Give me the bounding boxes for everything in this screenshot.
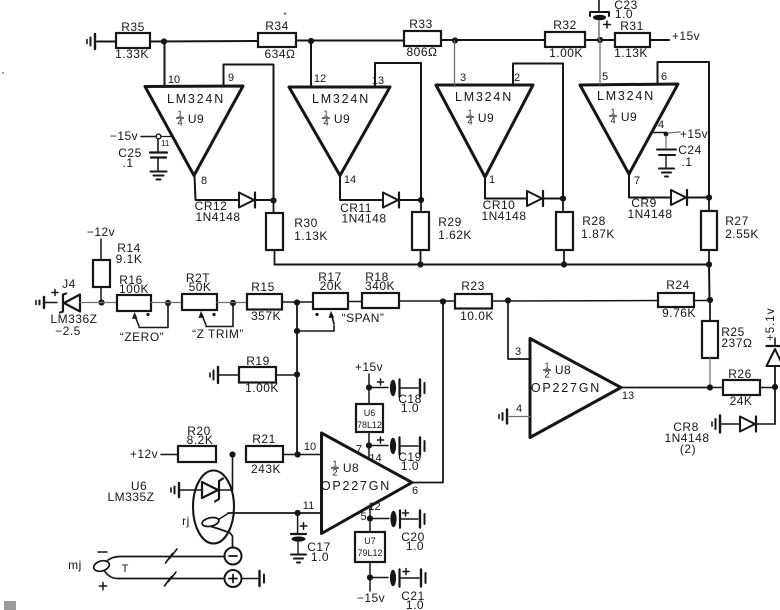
op-amp U9A LM324N: [145, 72, 243, 187]
wire R16 to R2T: [151, 302, 182, 304]
svg-text:79L12: 79L12: [357, 548, 382, 558]
diode CR12: [195, 193, 255, 225]
svg-text:R33: R33: [409, 17, 433, 31]
node output R26: [707, 384, 713, 390]
op-amp U8B OP227GN: [516, 339, 634, 438]
resistor R19: [239, 354, 297, 395]
svg-text:10: 10: [168, 74, 180, 86]
svg-text:1.0: 1.0: [401, 459, 419, 473]
wire R15 to node: [282, 301, 297, 303]
wire R26 node down: [774, 388, 776, 425]
node R17 wiper vertical: [294, 328, 300, 334]
svg-text:24K: 24K: [730, 394, 753, 408]
svg-text:7: 7: [634, 175, 640, 187]
svg-text:U7: U7: [364, 536, 376, 546]
svg-text:4: 4: [177, 118, 182, 129]
wire R2T to R15: [217, 302, 247, 304]
svg-text:100K: 100K: [119, 282, 149, 296]
svg-text:237Ω: 237Ω: [721, 336, 752, 350]
wire pin5 U9D: [599, 40, 601, 84]
node R26 right: [772, 384, 778, 390]
svg-text:U9: U9: [621, 110, 637, 124]
node R27 lower bus: [706, 261, 712, 267]
op-amp U9B LM324N: [289, 73, 390, 186]
wire R24 to node: [694, 300, 710, 302]
svg-text:T: T: [122, 563, 129, 575]
svg-text:13: 13: [622, 390, 634, 402]
node CR10 R28: [560, 195, 566, 201]
svg-text:1.13K: 1.13K: [614, 46, 648, 60]
resistor R18: [362, 270, 399, 308]
svg-text:−2.5: −2.5: [55, 324, 81, 338]
svg-text:20K: 20K: [320, 279, 343, 293]
capacitor C17: [291, 513, 331, 564]
node R23 pin3 junction: [505, 297, 511, 303]
svg-text:+5.1v: +5.1v: [765, 308, 777, 341]
svg-text:R29: R29: [438, 215, 462, 229]
diode sensor LM335Z: [202, 479, 223, 502]
diode CR9: [627, 190, 687, 221]
terminal minus circle: [225, 548, 242, 565]
svg-text:9.76K: 9.76K: [662, 306, 696, 320]
resistor R24: [658, 278, 696, 320]
ground J4: [36, 297, 57, 308]
svg-text:U9: U9: [188, 112, 204, 126]
node R16 wiper: [165, 300, 171, 306]
svg-text:−15v: −15v: [357, 591, 385, 605]
svg-text:5: 5: [602, 71, 608, 83]
svg-text:806Ω: 806Ω: [407, 45, 438, 59]
svg-text:5: 5: [360, 511, 366, 523]
svg-text:357K: 357K: [251, 309, 281, 323]
svg-text:R24: R24: [666, 278, 690, 292]
resistor R35: [115, 20, 150, 61]
wire pin1 output U9C: [485, 177, 527, 199]
capacitor C23: [590, 0, 638, 40]
svg-text:1.33K: 1.33K: [115, 47, 149, 61]
svg-text:U9: U9: [478, 111, 494, 125]
svg-text:1.00K: 1.00K: [245, 381, 279, 395]
wire bus R31 to +15V: [650, 39, 669, 41]
wire mj plus line: [104, 570, 225, 579]
terminal plus circle: [225, 570, 242, 587]
ground pin4 U8B: [499, 410, 530, 424]
svg-text:R30: R30: [294, 216, 318, 230]
svg-text:LM335Z: LM335Z: [107, 490, 154, 504]
wire lower bus down to R24 node: [708, 265, 711, 301]
diode CR10: [481, 191, 543, 223]
wire pin4 U9D to +15v: [654, 127, 709, 141]
op-amp U9D LM324N: [580, 71, 678, 187]
regulator U6 78L12: [356, 404, 383, 459]
svg-text:2: 2: [332, 468, 337, 479]
svg-text:U6: U6: [364, 408, 376, 418]
resistor R29: [412, 203, 472, 265]
svg-text:R15: R15: [251, 280, 275, 294]
svg-text:4: 4: [658, 119, 664, 131]
svg-text:1.0: 1.0: [406, 598, 424, 610]
svg-text:10.0K: 10.0K: [460, 309, 494, 323]
wire bus R34 to R33: [296, 40, 404, 42]
node vertical pin10: [295, 451, 301, 457]
svg-text:R23: R23: [461, 279, 485, 293]
svg-text:R19: R19: [246, 354, 270, 368]
resistor R15: [247, 280, 282, 323]
wire break plus line: [165, 572, 177, 586]
svg-text:R34: R34: [265, 19, 289, 33]
wire break minus line: [166, 549, 178, 563]
svg-text:(2): (2): [680, 442, 696, 456]
node bus pin3 junction: [452, 37, 458, 43]
diode CR8: [664, 416, 775, 457]
resistor R14: [93, 241, 142, 302]
svg-text:+15v: +15v: [672, 29, 700, 43]
svg-text:4: 4: [516, 403, 522, 415]
ground sensor: [171, 483, 202, 497]
wire mj minus line: [106, 557, 225, 563]
svg-text:LM324N: LM324N: [167, 92, 225, 106]
wire pin12 U9B: [310, 41, 312, 87]
svg-text:2: 2: [544, 370, 549, 381]
svg-text:2.55K: 2.55K: [725, 227, 759, 241]
svg-text:243K: 243K: [251, 462, 281, 476]
svg-text:1.0: 1.0: [406, 539, 424, 553]
diode J4 LM336Z: [50, 277, 97, 338]
op-amp U9C LM324N: [436, 72, 533, 186]
node bus pin5 junction: [597, 37, 603, 43]
svg-text:1: 1: [489, 174, 495, 186]
wire pin3 U8B: [508, 301, 530, 360]
wire CR9 to node: [687, 197, 709, 199]
resistor R31: [614, 19, 650, 60]
capacitor C20: [372, 510, 425, 553]
svg-text:78L12: 78L12: [357, 420, 382, 430]
power -12V: [87, 225, 115, 260]
svg-text:1.87K: 1.87K: [581, 227, 615, 241]
pot R2T Z-TRIM: [182, 271, 244, 341]
ground R19: [210, 367, 239, 383]
wire lower bus: [275, 264, 710, 266]
wire R21 to pin10: [283, 454, 322, 456]
wire R18 to R23: [399, 300, 455, 302]
svg-text:9.1K: 9.1K: [116, 252, 143, 266]
svg-text:4: 4: [323, 118, 328, 129]
power -15V U9A: [110, 129, 171, 148]
svg-text:1N4148: 1N4148: [195, 210, 240, 224]
svg-text:“ZERO”: “ZERO”: [120, 330, 164, 344]
svg-text:3: 3: [460, 72, 466, 84]
resistor R26: [710, 367, 775, 408]
svg-text:U8: U8: [555, 363, 571, 377]
resistor R30: [266, 203, 328, 265]
stray speck top: [2, 12, 286, 74]
svg-text:+15v: +15v: [355, 360, 383, 374]
node U8A feedback middle: [440, 298, 446, 304]
wire bubble to pin11: [219, 514, 229, 520]
pot R17 SPAN: [297, 270, 384, 331]
pot R16 ZERO: [117, 273, 168, 344]
wire R17 to R18: [348, 301, 362, 303]
svg-text:1N4148: 1N4148: [341, 212, 386, 226]
svg-text:.1: .1: [122, 156, 133, 170]
svg-text:U8: U8: [343, 461, 359, 475]
node +15v C18: [366, 384, 372, 390]
wire U8A output feedback: [412, 302, 443, 483]
resistor R33: [404, 17, 441, 59]
wire feedback pin9 U9A: [224, 65, 274, 199]
svg-text:“SPAN”: “SPAN”: [342, 311, 385, 325]
svg-text:14: 14: [369, 453, 381, 465]
wire pin3 U9C: [454, 41, 456, 85]
svg-text:4: 4: [610, 116, 615, 127]
svg-text:6: 6: [412, 485, 418, 497]
svg-text:13: 13: [372, 75, 384, 87]
svg-text:OP227GN: OP227GN: [321, 479, 391, 493]
svg-text:7: 7: [356, 444, 362, 456]
node CR11 R29: [418, 197, 424, 203]
svg-text:R28: R28: [582, 214, 606, 228]
svg-text:LM324N: LM324N: [597, 89, 655, 103]
ground top-left bus: [87, 34, 116, 49]
sensor package ellipse: [193, 471, 234, 544]
wire pin14 output U9B: [340, 176, 383, 201]
resistor R32: [545, 18, 585, 60]
wire U8B output: [621, 387, 710, 389]
node pin12 C20: [367, 506, 373, 522]
power +12V: [130, 447, 178, 461]
wire feedback pin2 U9C: [513, 64, 563, 196]
sensor adj bubble: [182, 514, 220, 528]
wire R15 node to R17: [297, 301, 313, 303]
svg-text:12: 12: [314, 73, 326, 85]
capacitor C24: [657, 136, 702, 177]
power +15V top right: [672, 29, 700, 43]
svg-text:“Z TRIM”: “Z TRIM”: [192, 327, 244, 341]
power -15V U7: [357, 578, 385, 606]
svg-text:50K: 50K: [189, 280, 212, 294]
wire CR10 to node: [543, 198, 563, 200]
node bus pin12 junction: [308, 38, 314, 44]
resistor R28: [556, 201, 615, 265]
svg-text:R27: R27: [725, 214, 749, 228]
resistor R23: [455, 279, 494, 323]
node CR9 R27: [706, 194, 712, 200]
wire R23 to R24: [492, 300, 658, 303]
node CR12 R30: [270, 197, 276, 203]
regulator U7 79L12: [355, 519, 385, 578]
diode CR11: [340, 193, 399, 226]
svg-text:11: 11: [303, 500, 314, 512]
wire CR11 to node: [399, 199, 421, 201]
wire CR12 to node: [255, 199, 274, 201]
svg-text:U9: U9: [334, 112, 350, 126]
node 78L12 C19 pin14: [366, 442, 372, 448]
svg-text:R32: R32: [553, 18, 577, 32]
capacitor C18: [371, 379, 425, 415]
resistor R21: [246, 432, 283, 476]
svg-text:3: 3: [515, 346, 521, 358]
svg-text:+15v: +15v: [680, 127, 708, 141]
svg-text:1.0: 1.0: [311, 550, 329, 564]
node R20 R21 sensor: [229, 451, 235, 457]
svg-text:LM324N: LM324N: [455, 90, 513, 104]
svg-text:J4: J4: [62, 277, 76, 291]
node R24 R25: [707, 297, 713, 303]
wire vertical node column: [296, 303, 298, 455]
diode zener to +5.1v: [765, 308, 780, 387]
svg-text:634Ω: 634Ω: [265, 47, 296, 61]
sensor U6 LM335Z label: [107, 479, 154, 504]
node bus pin10 junction: [161, 38, 167, 44]
svg-text:1N4148: 1N4148: [627, 207, 672, 221]
svg-text:+12v: +12v: [130, 447, 158, 461]
resistor R20: [178, 424, 216, 462]
wire sensor cathode up: [219, 456, 233, 490]
svg-text:R26: R26: [728, 367, 752, 381]
power +15V U6: [355, 360, 383, 404]
svg-text:−15v: −15v: [110, 129, 138, 143]
node middle R15 R17: [294, 299, 300, 305]
wire pin11 U8A: [228, 512, 322, 514]
resistor R25: [702, 300, 753, 387]
svg-text:2: 2: [514, 72, 520, 84]
resistor R34: [258, 19, 296, 61]
svg-text:R31: R31: [620, 19, 644, 33]
svg-text:OP227GN: OP227GN: [531, 381, 601, 395]
node R29 lower bus: [417, 261, 423, 267]
svg-text:1N4148: 1N4148: [481, 209, 526, 223]
svg-text:14: 14: [344, 174, 356, 186]
svg-text:.1: .1: [681, 155, 692, 169]
svg-text:4: 4: [467, 117, 472, 128]
svg-text:6: 6: [661, 71, 667, 83]
svg-text:10: 10: [304, 441, 316, 453]
svg-text:mj: mj: [68, 558, 82, 572]
node U7 C21: [367, 574, 373, 580]
ground plus terminal: [242, 571, 265, 586]
svg-text:1.00K: 1.00K: [549, 46, 583, 60]
wire feedback pin13 U9B: [375, 63, 421, 197]
wire J4 to R16: [80, 302, 117, 304]
capacitor C25: [118, 139, 167, 180]
wire feedback pin6 U9D: [658, 62, 710, 195]
stray mark bottom-left: [4, 601, 16, 610]
wire bus R35 to R34: [150, 40, 258, 43]
svg-text:11: 11: [161, 139, 170, 148]
wire sensor anode down: [211, 527, 233, 548]
connector mj: [68, 552, 128, 590]
wire bus R32 to R31: [585, 39, 615, 41]
svg-text:−12v: −12v: [87, 225, 115, 239]
svg-text:R35: R35: [121, 20, 145, 34]
svg-text:1.62K: 1.62K: [438, 228, 472, 242]
svg-text:1.0: 1.0: [401, 401, 419, 415]
svg-text:8.2K: 8.2K: [187, 433, 214, 447]
svg-text:8: 8: [201, 175, 207, 187]
resistor R27: [701, 200, 759, 265]
wire pin8 output U9A: [195, 176, 240, 201]
svg-text:340K: 340K: [365, 279, 395, 293]
node R28 lower bus: [561, 261, 567, 267]
svg-text:LM324N: LM324N: [312, 92, 370, 106]
node R14 middle line: [98, 299, 104, 305]
svg-text:9: 9: [228, 72, 234, 84]
wire pin7 output U9D: [629, 174, 671, 198]
wire bus R33 to R32: [441, 39, 545, 41]
svg-text:R21: R21: [252, 432, 276, 446]
node R2T wiper: [230, 300, 236, 306]
svg-text:1.13K: 1.13K: [294, 229, 328, 243]
wire pin10 U9A: [164, 42, 166, 87]
svg-text:rj: rj: [182, 514, 190, 528]
node pin11 C17: [295, 510, 301, 516]
node R19 vertical: [294, 371, 300, 377]
capacitor C19: [371, 437, 425, 473]
capacitor C21: [372, 569, 426, 610]
op-amp U8A OP227GN: [303, 433, 418, 534]
